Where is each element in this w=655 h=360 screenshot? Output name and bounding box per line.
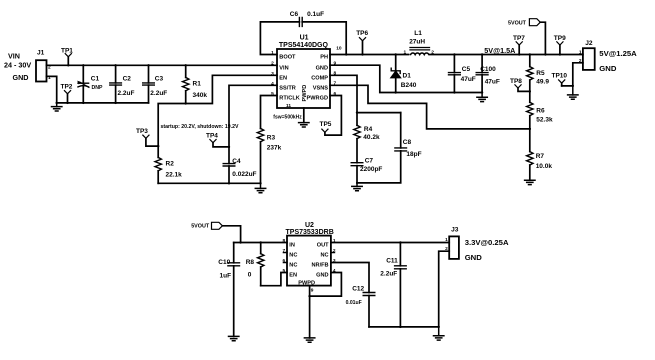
net flag 5VOUT top <box>508 19 545 55</box>
diode D1 <box>391 55 417 93</box>
svg-text:EN: EN <box>289 273 297 279</box>
junction at (529.8,54.5) <box>529 53 531 55</box>
svg-text:TP5: TP5 <box>320 121 332 128</box>
svg-text:1: 1 <box>579 50 582 56</box>
svg-text:1: 1 <box>445 237 448 243</box>
junction at (529.8,91.4) <box>529 90 531 92</box>
svg-text:R5: R5 <box>536 70 545 77</box>
svg-text:10: 10 <box>336 46 342 52</box>
junction at (545.4,54.5) <box>544 53 546 55</box>
wire C6 to PH <box>302 22 346 55</box>
svg-text:B240: B240 <box>401 82 417 89</box>
junction at (482.1,92.5) <box>481 91 483 93</box>
svg-text:3.3V@0.25A: 3.3V@0.25A <box>465 238 509 247</box>
connector J3 <box>445 227 509 262</box>
junction at (559.9,54.5) <box>559 53 561 55</box>
svg-text:VIN: VIN <box>279 65 288 71</box>
svg-text:0.01uF: 0.01uF <box>346 300 362 306</box>
svg-text:237k: 237k <box>267 144 282 151</box>
ground EN <box>255 183 265 193</box>
test point TP9 <box>554 35 566 55</box>
connector J2 <box>579 40 637 73</box>
svg-text:2.2uF: 2.2uF <box>150 90 167 97</box>
svg-text:TPS54140DGQ: TPS54140DGQ <box>279 42 329 49</box>
svg-text:22.1k: 22.1k <box>166 171 183 178</box>
junction at (438.7,326.9) <box>438 326 440 328</box>
svg-text:PWPD: PWPD <box>302 85 308 102</box>
junction at (454.4,54.5) <box>453 53 455 55</box>
junction at (572.8,85.9) <box>572 85 574 87</box>
test point TP2 <box>61 84 73 103</box>
test point TP6 <box>356 30 368 54</box>
wire U2 input rail <box>234 242 287 244</box>
wire EN ground rail <box>158 182 260 184</box>
svg-text:NC: NC <box>321 253 329 259</box>
svg-text:C100: C100 <box>480 66 496 73</box>
svg-text:DNP: DNP <box>92 85 103 91</box>
capacitor C100 <box>476 55 500 93</box>
svg-text:VSNS: VSNS <box>313 85 329 91</box>
wire bottom ground rail <box>369 326 439 328</box>
junction at (400.4,242.5) <box>399 241 401 243</box>
svg-text:5: 5 <box>283 268 286 274</box>
svg-text:R3: R3 <box>267 134 276 141</box>
wire PWPD pad U1 <box>303 108 305 123</box>
svg-text:3: 3 <box>271 71 274 77</box>
svg-text:SS/TR: SS/TR <box>279 85 295 91</box>
capacitor C4 <box>223 158 256 184</box>
wire PWRGD to TP5 <box>325 96 342 136</box>
svg-text:L1: L1 <box>414 30 422 37</box>
junction at (56.7,102.9) <box>56 102 58 104</box>
svg-text:startup: 20.2V, shutdown: 19.2: startup: 20.2V, shutdown: 19.2V <box>161 124 239 130</box>
test point TP7 <box>513 35 525 55</box>
junction at (229,146.9) <box>228 146 230 148</box>
svg-text:5VOUT: 5VOUT <box>508 20 527 26</box>
svg-text:D1: D1 <box>403 72 412 79</box>
junction at (115.6,65.3) <box>114 64 116 66</box>
svg-text:0.1uF: 0.1uF <box>307 11 324 18</box>
svg-text:C8: C8 <box>403 139 412 146</box>
svg-text:40.2k: 40.2k <box>363 134 380 141</box>
svg-text:2: 2 <box>445 246 448 252</box>
junction at (185.7,65.3) <box>185 64 187 66</box>
capacitor C3 <box>143 65 168 103</box>
junction at (309.6,296.1) <box>308 295 310 297</box>
ground output <box>477 93 487 102</box>
test point TP8 <box>510 78 530 91</box>
wire U1 GND to power ground rail <box>330 65 482 92</box>
svg-text:5VOUT: 5VOUT <box>191 224 210 230</box>
svg-text:J1: J1 <box>37 50 45 57</box>
wire VIN rail <box>47 64 278 66</box>
resistor R1 <box>183 65 208 103</box>
junction at (83.3,102.9) <box>82 102 84 104</box>
svg-text:C4: C4 <box>232 158 241 165</box>
svg-text:1: 1 <box>404 49 407 55</box>
capacitor C10 <box>218 243 239 337</box>
wire NR/FB net <box>331 263 369 293</box>
svg-text:5V@1.25A: 5V@1.25A <box>599 49 637 58</box>
resistor R2 <box>155 157 182 183</box>
ground compensation <box>352 183 362 191</box>
junction at (519.2,54.5) <box>518 53 520 55</box>
svg-text:TP9: TP9 <box>554 35 566 42</box>
ground input <box>52 103 62 111</box>
svg-text:47uF: 47uF <box>485 78 500 85</box>
svg-text:0.022uF: 0.022uF <box>232 171 256 178</box>
test point TP3 <box>136 128 158 146</box>
ground U2 <box>304 338 314 342</box>
capacitor C2 <box>110 65 135 103</box>
junction at (346.2,54.5) <box>345 53 347 55</box>
svg-text:49.9: 49.9 <box>536 79 549 86</box>
svg-text:VIN: VIN <box>8 51 20 60</box>
svg-text:BOOT: BOOT <box>279 55 296 61</box>
IC U1 <box>271 35 342 109</box>
svg-text:2: 2 <box>271 61 274 67</box>
svg-text:PWPD: PWPD <box>298 280 315 286</box>
svg-text:R8: R8 <box>246 259 255 266</box>
capacitor C1 <box>77 65 103 103</box>
svg-text:TP6: TP6 <box>356 30 368 37</box>
wire PWPD pad U2 <box>309 286 311 338</box>
svg-text:5: 5 <box>271 91 274 97</box>
junction at (357,112.6) <box>356 111 358 113</box>
junction at (395.7,92.5) <box>395 91 397 93</box>
junction at (260.5,183.3) <box>259 182 261 184</box>
resistor R5 <box>527 55 550 103</box>
node VIN labels <box>4 51 31 82</box>
wire U2 GND pin <box>310 273 342 297</box>
svg-text:5V@1.5A: 5V@1.5A <box>484 46 515 55</box>
svg-text:TP4: TP4 <box>206 133 218 140</box>
junction at (529.8,128.9) <box>529 128 531 130</box>
wire J1 pin1 to ground rail <box>47 76 57 103</box>
junction at (158.2,146.1) <box>157 145 159 147</box>
connector J1 <box>36 50 51 82</box>
junction at (229,183.3) <box>228 182 230 184</box>
svg-text:RT/CLK: RT/CLK <box>279 96 300 102</box>
svg-text:R6: R6 <box>536 107 545 114</box>
svg-text:J3: J3 <box>451 227 459 234</box>
junction at (482.1,54.5) <box>481 53 483 55</box>
wire VSNS feedback <box>330 85 530 129</box>
ground R7 <box>525 180 535 184</box>
capacitor C7 <box>351 157 382 183</box>
svg-text:C12: C12 <box>352 286 364 293</box>
svg-text:52.3k: 52.3k <box>536 116 553 123</box>
resistor R4 <box>354 125 380 162</box>
svg-text:2: 2 <box>431 49 434 55</box>
wire SS/TR net <box>229 85 277 163</box>
svg-text:J2: J2 <box>585 40 593 47</box>
junction at (83.3,65.3) <box>82 64 84 66</box>
junction at (68.3,65.3) <box>67 64 69 66</box>
junction at (362.5,54.5) <box>361 53 363 55</box>
wire RT/CLK net <box>261 96 278 129</box>
svg-text:C10: C10 <box>218 259 230 266</box>
svg-text:OUT: OUT <box>317 243 329 249</box>
svg-text:1uF: 1uF <box>220 272 232 279</box>
svg-text:18pF: 18pF <box>406 151 421 158</box>
svg-text:R7: R7 <box>536 153 545 160</box>
svg-text:C5: C5 <box>462 66 471 73</box>
capacitor C11 <box>380 243 406 327</box>
svg-text:11: 11 <box>286 103 291 109</box>
svg-text:R4: R4 <box>364 126 373 133</box>
svg-text:TPS73533DRB: TPS73533DRB <box>286 229 334 236</box>
svg-text:U1: U1 <box>300 35 309 42</box>
svg-text:2200pF: 2200pF <box>360 166 382 173</box>
junction at (400.4,326.9) <box>399 326 401 328</box>
inductor L1 <box>404 30 435 56</box>
svg-text:C6: C6 <box>290 11 299 18</box>
svg-text:R1: R1 <box>193 80 202 87</box>
junction at (185.7,103.5) <box>185 102 187 104</box>
svg-text:4: 4 <box>271 81 274 87</box>
IC U2 <box>283 222 336 293</box>
svg-text:0: 0 <box>248 271 252 278</box>
ground J2 <box>568 86 578 99</box>
svg-text:10.0k: 10.0k <box>536 163 553 170</box>
svg-text:NR/FB: NR/FB <box>312 263 329 269</box>
junction at (67.5,102.9) <box>66 102 68 104</box>
resistor R6 <box>527 102 553 129</box>
svg-text:9: 9 <box>311 288 314 294</box>
svg-text:C2: C2 <box>123 75 132 82</box>
wire U2 OUT rail <box>331 242 449 244</box>
wire J2 pin2 <box>562 63 583 86</box>
capacitor C8 <box>357 113 422 183</box>
test point TP10 <box>552 72 568 86</box>
junction at (240.6,242.5) <box>239 241 241 243</box>
svg-text:TP3: TP3 <box>136 128 148 135</box>
capacitor C5 <box>449 55 476 93</box>
svg-text:C7: C7 <box>365 157 374 164</box>
svg-text:EN: EN <box>279 75 287 81</box>
svg-text:47uF: 47uF <box>461 76 476 83</box>
svg-text:R2: R2 <box>166 161 175 168</box>
svg-text:COMP: COMP <box>311 75 328 81</box>
svg-text:27uH: 27uH <box>409 38 425 45</box>
svg-text:GND: GND <box>599 64 617 73</box>
svg-text:GND: GND <box>316 273 328 279</box>
wire PH rail <box>330 54 583 56</box>
wire BOOT net <box>260 22 299 55</box>
svg-text:NC: NC <box>289 253 297 259</box>
svg-text:C11: C11 <box>386 257 398 264</box>
svg-text:GND: GND <box>13 73 29 82</box>
svg-text:2.2uF: 2.2uF <box>118 90 135 97</box>
svg-text:2.2uF: 2.2uF <box>380 270 397 277</box>
junction at (148.5,65.3) <box>147 64 149 66</box>
junction at (115.6,102.9) <box>114 102 116 104</box>
svg-text:TP10: TP10 <box>552 72 568 79</box>
junction at (260.7,242.5) <box>260 241 262 243</box>
test point TP4 <box>206 133 229 147</box>
wire R8 to EN pin <box>261 273 287 286</box>
wire J3 pin2 <box>439 251 450 327</box>
wire EN net <box>158 75 277 157</box>
ground U1 pad <box>299 123 309 127</box>
svg-text:GND: GND <box>316 65 328 71</box>
resistor R8 <box>246 243 264 286</box>
svg-text:C3: C3 <box>155 75 164 82</box>
junction at (454.4,92.5) <box>453 91 455 93</box>
wire COMP net <box>330 75 401 125</box>
ground J3 <box>434 327 444 340</box>
junction at (395.7,54.5) <box>395 53 397 55</box>
svg-text:TP2: TP2 <box>61 84 73 91</box>
capacitor C12 <box>346 286 375 327</box>
svg-text:C1: C1 <box>91 76 100 83</box>
test point TP5 <box>320 121 332 133</box>
svg-text:PH: PH <box>320 55 328 61</box>
svg-text:8: 8 <box>283 238 286 244</box>
svg-text:fsw=500kHz: fsw=500kHz <box>273 114 302 120</box>
test point TP1 <box>61 48 73 66</box>
svg-text:PWRGD: PWRGD <box>307 96 328 102</box>
svg-text:GND: GND <box>465 253 483 262</box>
svg-text:NC: NC <box>289 263 297 269</box>
svg-text:340k: 340k <box>193 92 208 99</box>
wire input ground rail <box>57 102 149 104</box>
net flag 5VOUT bottom <box>191 222 240 242</box>
capacitor C6 <box>290 11 324 26</box>
svg-text:TP8: TP8 <box>510 78 522 85</box>
svg-text:IN: IN <box>289 243 295 249</box>
resistor R3 <box>257 128 281 183</box>
ground C10 <box>229 336 239 340</box>
svg-text:24 - 30V: 24 - 30V <box>4 61 31 70</box>
svg-text:TP7: TP7 <box>513 35 525 42</box>
resistor R7 <box>527 129 553 180</box>
